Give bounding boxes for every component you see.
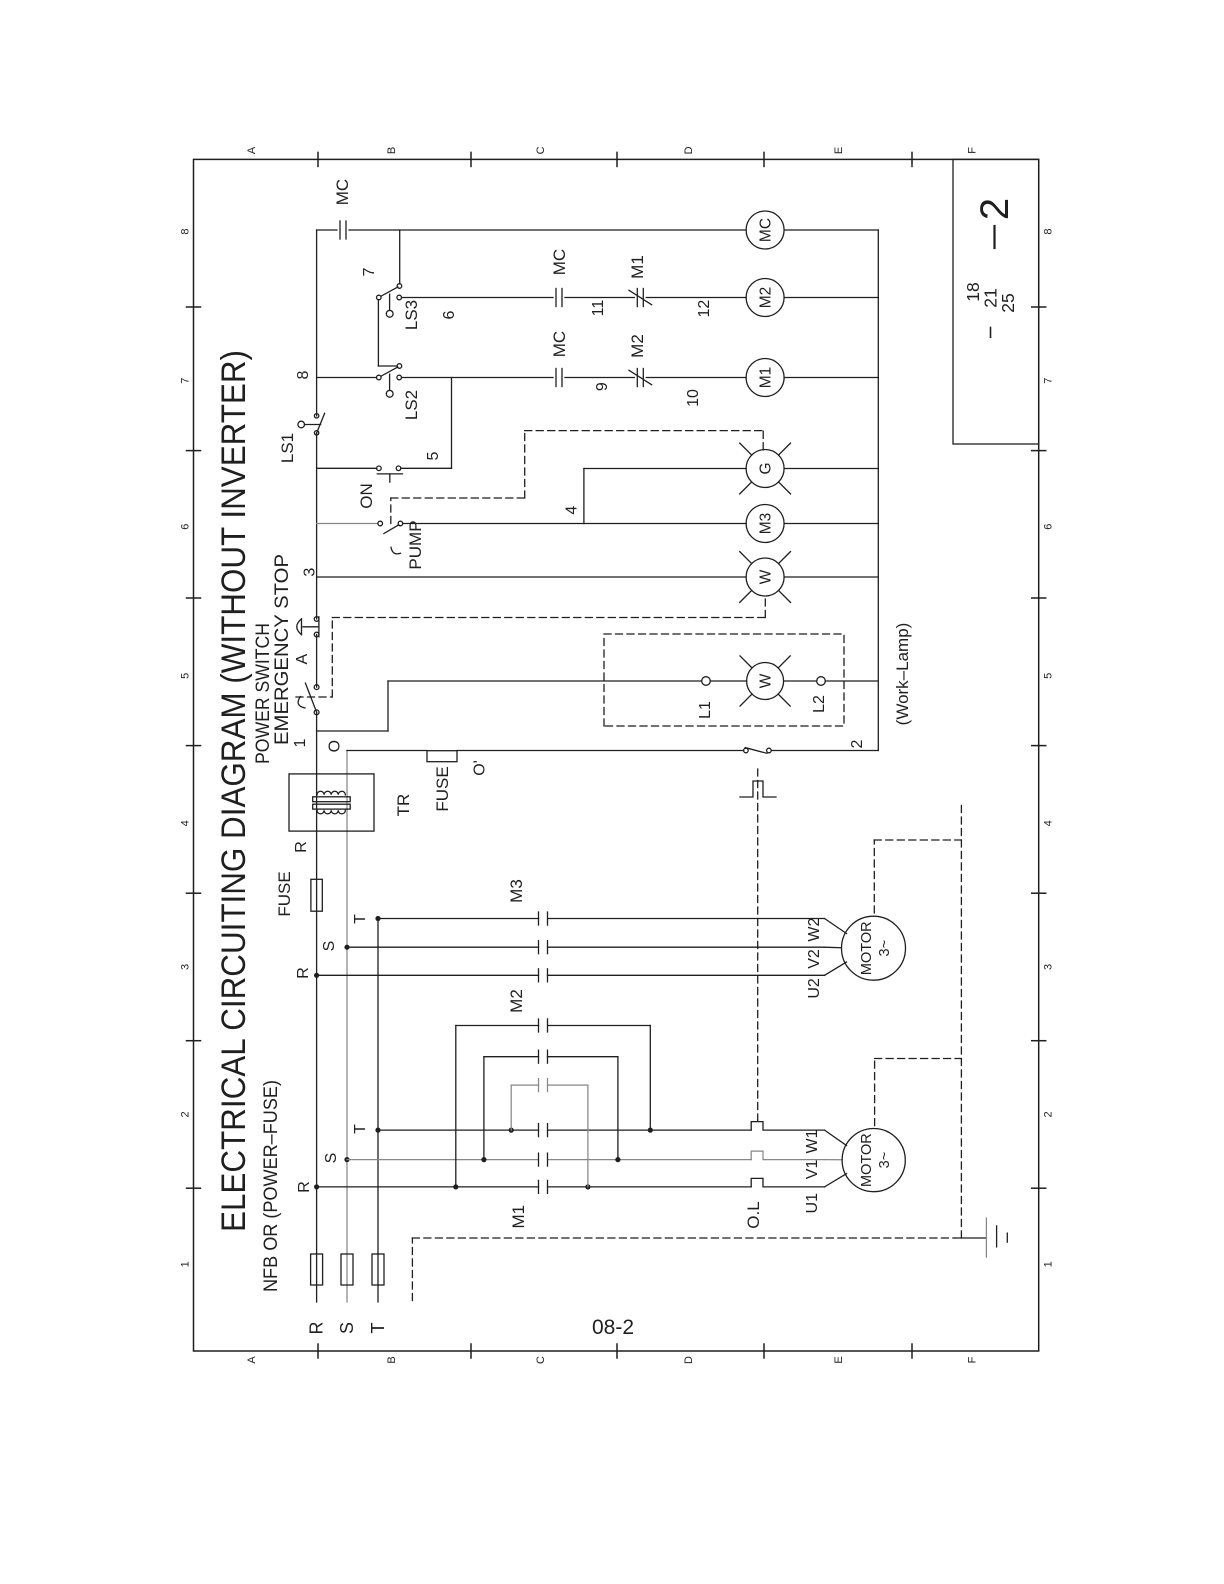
svg-text:8: 8 <box>180 229 192 235</box>
svg-text:4: 4 <box>563 506 580 515</box>
svg-text:1: 1 <box>1043 1261 1055 1267</box>
dashed protective earth line <box>412 1237 955 1239</box>
title block drawing number -2 <box>993 226 995 248</box>
svg-text:D: D <box>683 146 695 154</box>
wire M2 rung bottom <box>784 297 878 299</box>
wire O drop upper <box>347 750 427 752</box>
wire M1 rung mid <box>565 377 634 379</box>
coil M1 <box>746 359 784 397</box>
title block box <box>953 159 1039 444</box>
svg-text:2: 2 <box>1043 1111 1055 1117</box>
wire 8 rung from rail <box>317 377 377 379</box>
svg-text:MC: MC <box>758 218 775 242</box>
junction dot T to motor2 branch <box>375 916 380 921</box>
svg-text:7: 7 <box>180 378 192 384</box>
wire M2 rung lower <box>646 297 746 299</box>
wire motor1 R line <box>317 1186 539 1188</box>
emergency stop contacts <box>314 617 319 622</box>
wire S bus <box>346 751 348 1303</box>
svg-text:9: 9 <box>594 382 611 391</box>
svg-text:6: 6 <box>1043 524 1055 530</box>
wire G rung lower <box>584 468 746 470</box>
svg-text:7: 7 <box>361 267 378 276</box>
limit switch LS1 blade <box>317 413 325 433</box>
dashed enclosure motor1 arm <box>874 1059 876 1126</box>
svg-text:M2: M2 <box>758 287 775 309</box>
transformer TR core bars <box>313 804 351 809</box>
svg-text:3: 3 <box>180 964 192 970</box>
wire 3 rung from rail <box>317 576 746 578</box>
power switch hook <box>298 697 305 709</box>
svg-text:6: 6 <box>180 524 192 530</box>
svg-text:POWER SWITCH: POWER SWITCH <box>253 623 274 764</box>
svg-text:U2: U2 <box>806 978 823 999</box>
pushbutton ON actuator <box>377 473 402 475</box>
wire motor2 R line <box>317 974 539 976</box>
svg-text:8: 8 <box>295 370 312 379</box>
svg-text:L1: L1 <box>697 701 714 719</box>
svg-text:12: 12 <box>696 300 713 318</box>
svg-text:F: F <box>966 147 978 154</box>
wire pump feed from rail <box>317 523 378 525</box>
dashed enclosure motor2 riser <box>874 839 961 841</box>
svg-text:3: 3 <box>302 568 319 577</box>
contactor M3 power contacts <box>538 969 540 982</box>
power switch blade <box>305 683 316 712</box>
svg-text:C: C <box>535 146 547 154</box>
svg-text:25: 25 <box>998 293 1018 312</box>
transformer TR primary winding <box>317 791 345 795</box>
wire MC rung top <box>317 229 337 231</box>
contact NC M1 on M2 rung <box>636 289 638 307</box>
page number 08-2 <box>573 1316 653 1340</box>
svg-text:O.L: O.L <box>744 1201 763 1228</box>
svg-text:EMERGENCY STOP: EMERGENCY STOP <box>272 554 293 745</box>
M2 bank row2 S straight <box>483 1057 485 1160</box>
wire G rung feed from M3 rung <box>583 469 585 524</box>
svg-text:ON: ON <box>357 483 376 509</box>
wire work lamp feed step <box>317 730 388 732</box>
svg-text:M1: M1 <box>509 1205 528 1229</box>
wire G rung bottom <box>784 468 878 470</box>
power switch contacts <box>314 685 319 690</box>
terminal L2 <box>817 677 826 686</box>
motor 1 circle <box>842 1129 905 1192</box>
wire MC rung bottom <box>784 229 878 231</box>
switch on O wire contacts <box>744 748 749 753</box>
frame row ticks right edge <box>317 152 319 166</box>
svg-text:MC: MC <box>333 179 352 205</box>
wire from work lamp <box>784 680 817 682</box>
svg-text:E: E <box>833 147 845 154</box>
wire ON bridge to M1 rung <box>451 378 453 469</box>
limit switch LS2 <box>377 375 382 380</box>
wire M1 rung bottom <box>784 377 878 379</box>
wire below ON <box>401 467 452 469</box>
contact NC M2 on M1 rung <box>636 369 638 387</box>
coil MC <box>746 211 784 249</box>
svg-text:M1: M1 <box>628 255 647 279</box>
frame row ticks left edge <box>317 1344 319 1358</box>
wire 5 rung from rail <box>317 467 377 469</box>
wire motor1 S line <box>347 1159 539 1161</box>
transformer TR secondary winding <box>317 810 345 814</box>
switch on O wire blade <box>745 748 767 754</box>
svg-text:O: O <box>327 740 344 752</box>
svg-text:R: R <box>293 841 310 853</box>
wire MC rung middle <box>349 229 746 231</box>
wire 7 link to LS3 <box>399 230 401 284</box>
svg-text:T: T <box>352 914 369 924</box>
svg-text:M2: M2 <box>628 334 647 358</box>
wire T bus <box>377 919 379 1303</box>
svg-text:W: W <box>758 673 775 688</box>
svg-text:V1: V1 <box>804 1160 821 1180</box>
svg-text:W2: W2 <box>806 917 823 941</box>
svg-text:11: 11 <box>590 300 607 317</box>
svg-text:5: 5 <box>425 451 442 460</box>
svg-text:FUSE: FUSE <box>275 871 294 916</box>
junction dot S to motor2 branch <box>344 945 349 950</box>
M2 bank row1 R-T swap <box>455 1026 457 1187</box>
svg-text:W1: W1 <box>804 1129 821 1153</box>
wire link LS3 common to LS2 side contact <box>377 300 379 366</box>
switch PUMP blade <box>384 525 399 534</box>
switch PUMP contacts <box>378 521 383 526</box>
junction dots M2 bank on motor1 lines <box>453 1184 458 1189</box>
dashed work lamp box <box>604 634 844 726</box>
junction dot T to motor1 branch <box>375 1128 380 1133</box>
wire O drop mid <box>457 750 744 752</box>
emergency stop bridge bar <box>318 617 320 637</box>
svg-text:5: 5 <box>180 673 192 679</box>
svg-text:M3: M3 <box>758 513 775 535</box>
svg-text:3~: 3~ <box>877 940 893 957</box>
contact MC on M1 rung <box>555 369 557 387</box>
svg-text:MOTOR: MOTOR <box>859 1133 875 1187</box>
svg-text:U1: U1 <box>804 1193 821 1214</box>
ground stem <box>955 1237 986 1239</box>
frame column ticks top edge <box>187 1187 201 1189</box>
svg-text:M1: M1 <box>758 367 775 389</box>
svg-text:2: 2 <box>973 198 1017 220</box>
svg-text:W: W <box>758 569 775 584</box>
junction dot R to motor1 branch <box>314 1184 319 1189</box>
svg-text:L2: L2 <box>811 695 828 713</box>
svg-text:V2: V2 <box>806 949 823 969</box>
svg-text:T: T <box>368 1323 388 1334</box>
wire M3 rung <box>403 523 746 525</box>
wire to work lamp <box>710 680 746 682</box>
overload O.L jogs <box>751 1178 824 1187</box>
junction dot S to motor1 branch <box>344 1157 349 1162</box>
svg-text:NFB OR (POWER–FUSE): NFB OR (POWER–FUSE) <box>261 1080 282 1292</box>
wire control bottom bus <box>877 230 879 751</box>
wire M1 rung upper <box>402 377 554 379</box>
svg-text:D: D <box>683 1356 695 1364</box>
svg-text:3~: 3~ <box>877 1152 893 1169</box>
coil M2 <box>746 279 784 317</box>
ground bars <box>985 1218 987 1257</box>
svg-text:S: S <box>321 941 338 952</box>
frame column ticks bottom edge <box>1032 1187 1046 1189</box>
svg-text:MC: MC <box>550 249 569 275</box>
svg-text:6: 6 <box>441 310 458 319</box>
NFB fuse S <box>341 1254 353 1285</box>
wire W rung bottom <box>784 576 878 578</box>
dashed enclosure bottom line <box>960 803 962 1238</box>
svg-text:1: 1 <box>292 738 309 747</box>
fuse on O wire <box>427 751 457 762</box>
NFB fuse T <box>372 1254 384 1285</box>
svg-text:M3: M3 <box>507 879 526 903</box>
title block dash before 21 <box>990 328 992 338</box>
svg-text:R: R <box>296 1181 313 1193</box>
dashed enclosure motor1 riser <box>875 1058 962 1060</box>
pushbutton ON contacts <box>377 466 382 471</box>
svg-text:TR: TR <box>394 794 413 817</box>
svg-text:A: A <box>246 1356 258 1364</box>
dashed link power switch to work lamp <box>296 696 332 698</box>
lamp W <box>746 558 784 596</box>
wire M3 rung bottom <box>784 523 878 525</box>
svg-text:E: E <box>833 1356 845 1363</box>
dashed enclosure left stub <box>411 1238 413 1301</box>
wire M2 rung mid <box>565 297 634 299</box>
lamp W work lamp <box>747 663 784 700</box>
svg-text:10: 10 <box>685 389 702 407</box>
svg-text:S: S <box>337 1322 357 1334</box>
contact MC self-holding <box>339 221 341 239</box>
svg-text:3: 3 <box>1043 964 1055 970</box>
drawing border frame <box>194 159 1039 1351</box>
M2 bank row3 T-R swap gray <box>510 1085 512 1130</box>
dashed link PUMP to G lamp <box>390 498 392 524</box>
svg-text:M2: M2 <box>507 989 526 1013</box>
wire motor2 T line <box>378 918 539 920</box>
svg-text:4: 4 <box>180 820 192 826</box>
svg-text:2: 2 <box>849 739 866 748</box>
dashed enclosure motor2 arm <box>873 840 875 913</box>
svg-text:1: 1 <box>180 1261 192 1267</box>
limit switch LS1 contacts <box>314 414 318 418</box>
wire O drop lower <box>771 750 878 752</box>
coil M3 <box>746 505 784 543</box>
wire work lamp rung upper <box>388 680 702 682</box>
svg-text:PUMP: PUMP <box>406 520 425 569</box>
motor 2 circle <box>842 916 906 980</box>
svg-text:5: 5 <box>1043 673 1055 679</box>
svg-text:R: R <box>307 1322 327 1335</box>
cam pulse symbol <box>740 781 776 797</box>
wire motor2 S line <box>347 946 539 948</box>
control fuse on R bus <box>311 879 322 911</box>
svg-text:7: 7 <box>1043 378 1055 384</box>
NFB fuse R <box>311 1254 323 1285</box>
svg-text:ELECTRICAL CIRCUITING DIAGRA: ELECTRICAL CIRCUITING DIAGRAM (WITHOUT I… <box>215 350 253 1232</box>
svg-text:FUSE: FUSE <box>433 766 452 811</box>
lamp G <box>746 450 784 488</box>
svg-text:O': O' <box>472 760 489 776</box>
junction dot R to motor2 branch <box>314 973 319 978</box>
contactor M1 power contacts <box>538 1180 540 1193</box>
svg-text:S: S <box>323 1153 340 1164</box>
svg-text:F: F <box>966 1356 978 1363</box>
wire R bus <box>316 712 318 1302</box>
svg-text:4: 4 <box>1043 820 1055 826</box>
dashed machine boundary through O.L <box>757 765 759 1121</box>
switch PUMP hook <box>391 547 401 554</box>
svg-text:2: 2 <box>180 1111 192 1117</box>
wire motor1 T line <box>378 1129 539 1131</box>
wire work lamp rung bottom <box>825 680 878 682</box>
svg-text:8: 8 <box>1043 229 1055 235</box>
limit switch LS3 <box>377 295 382 300</box>
svg-text:T: T <box>352 1124 369 1134</box>
motor2 lead diagonals <box>825 962 847 975</box>
wire M1 rung lower <box>646 377 746 379</box>
limit switch LS1 roller <box>305 424 321 426</box>
svg-text:(Work–Lamp): (Work–Lamp) <box>893 623 912 726</box>
contact MC on M2 rung <box>555 289 557 307</box>
emergency stop mushroom head <box>303 626 318 628</box>
svg-text:A: A <box>294 653 311 664</box>
motor1 lead diagonals <box>825 1174 847 1187</box>
svg-text:C: C <box>535 1356 547 1364</box>
svg-text:LS3: LS3 <box>402 300 421 330</box>
svg-text:G: G <box>758 462 775 474</box>
svg-text:R: R <box>295 967 312 979</box>
svg-text:B: B <box>386 147 398 154</box>
svg-text:A: A <box>246 146 258 154</box>
transformer TR box <box>289 774 374 831</box>
wire M2 rung upper <box>402 297 554 299</box>
svg-text:B: B <box>386 1356 398 1363</box>
svg-text:LS1: LS1 <box>278 433 297 463</box>
svg-text:LS2: LS2 <box>402 390 421 420</box>
svg-text:MC: MC <box>550 331 569 357</box>
terminal L1 <box>702 677 711 686</box>
svg-text:MOTOR: MOTOR <box>859 921 875 975</box>
